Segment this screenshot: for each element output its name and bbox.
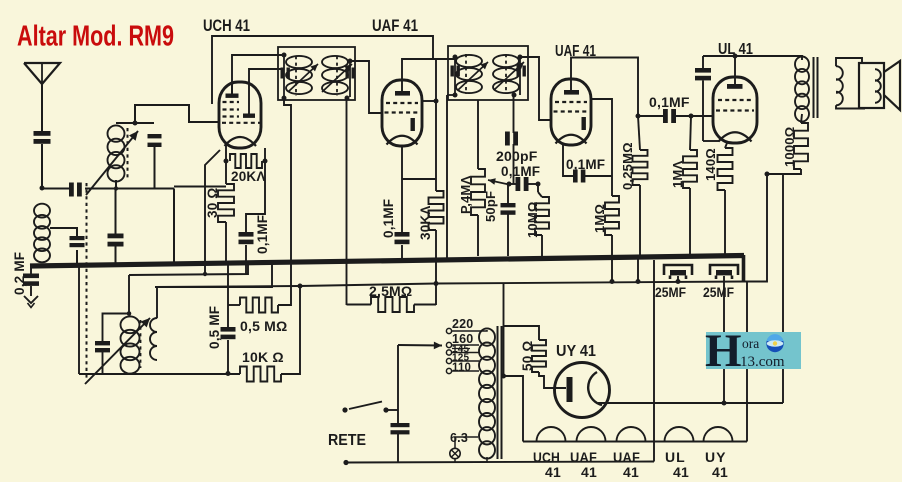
svg-text:200pF: 200pF <box>496 148 538 164</box>
IF1 arrow left <box>288 64 318 92</box>
wire UAF1 diode out <box>422 100 436 102</box>
UAF41-2 diode bar <box>582 117 586 130</box>
node IF2 corners <box>453 55 458 60</box>
node 1M return <box>610 279 615 284</box>
wire 50ohm to UY anode <box>539 372 566 388</box>
wire UAF2 diode out <box>591 99 612 196</box>
antenna coil L1 <box>34 204 50 218</box>
node antenna junction <box>40 186 45 191</box>
wire screen cap to bus <box>245 245 247 274</box>
IF2 arrow right <box>494 62 524 90</box>
resistor 50ohm <box>532 340 546 372</box>
wire RF coil bottom <box>115 180 117 189</box>
arrow osc tuning <box>85 318 150 384</box>
svg-text:41: 41 <box>623 464 639 480</box>
node cathode-20K <box>224 159 229 164</box>
UCH41 cathode arc <box>225 137 257 146</box>
wire AVC top rail <box>212 36 433 104</box>
resistor 1M grid UL41 <box>683 150 697 188</box>
wire RF node up and to UCH41 grid <box>135 105 218 123</box>
RF coil L2 <box>108 125 125 141</box>
svg-text:25MF: 25MF <box>655 284 686 300</box>
svg-text:0,1MF: 0,1MF <box>255 215 270 254</box>
wire 1M grid leads <box>690 116 691 150</box>
wire 220 tap top <box>479 330 487 331</box>
mains switch <box>342 407 347 412</box>
wire UCH41 triode anode to IF1 left <box>249 69 281 114</box>
wire winding bottom to rail <box>480 457 487 462</box>
resistor 30K <box>429 191 444 230</box>
IF2 core dashes right <box>505 54 507 94</box>
svg-text:1MΛ: 1MΛ <box>670 161 685 188</box>
node 20K right <box>263 159 268 164</box>
wire cathode to 30K <box>402 178 436 180</box>
oscillator coil L3 <box>121 316 140 333</box>
wire switch to column <box>386 409 398 411</box>
wire heater end up to bus corner <box>746 282 748 442</box>
watermark Hora13.com <box>705 325 801 377</box>
voltage selector taps <box>446 328 451 333</box>
svg-text:0,1MF: 0,1MF <box>501 164 540 179</box>
svg-text:20KΛ: 20KΛ <box>231 169 266 184</box>
IF1 primary winding <box>286 56 312 68</box>
wire RF trimmer to ant wire <box>154 147 156 189</box>
svg-text:25MF: 25MF <box>703 284 734 300</box>
wire UAF1 anode to IF2 <box>402 59 455 91</box>
node 30K return <box>434 281 439 286</box>
wire IF1 secondary top to UAF1 grid <box>350 61 382 113</box>
capacitor 0.5MF <box>227 262 229 327</box>
wire 6.3 tap <box>455 437 478 448</box>
UCH41 anode bar <box>226 94 239 98</box>
wire to UCH41 cathode node <box>174 186 226 188</box>
wire osc cap branch <box>103 314 130 342</box>
node UL41 anode rail <box>733 54 738 59</box>
UL41 grid dashes <box>718 99 752 101</box>
svg-text:UCH: UCH <box>533 449 560 465</box>
svg-text:UL: UL <box>665 449 686 465</box>
return line B- <box>155 282 744 288</box>
svg-text:UCH 41: UCH 41 <box>203 16 250 35</box>
svg-text:1000Ω: 1000Ω <box>782 127 797 167</box>
node detector <box>507 182 512 187</box>
heater chain bumps <box>537 427 733 442</box>
capacitor 0.1MF UCH screen <box>239 232 254 237</box>
resistor 1M audio <box>605 196 619 235</box>
node 0.5MF bottom <box>226 371 231 376</box>
arrow RF coil tuning <box>86 131 138 195</box>
svg-text:UAF: UAF <box>570 449 597 465</box>
UAF41-2 cathode arc <box>556 135 587 144</box>
wire coupling cap to tuned circuit <box>85 188 174 190</box>
wire mains bottom rail <box>346 462 654 463</box>
wire tap cap to bus <box>76 250 78 264</box>
resistor 0.4M <box>471 169 485 215</box>
node IF1 corners <box>282 53 287 58</box>
svg-text:0,2 MF: 0,2 MF <box>12 252 27 295</box>
wire bus to osc bottom <box>78 267 80 374</box>
svg-text:Altar Mod. RM9: Altar Mod. RM9 <box>17 21 174 53</box>
svg-text:0,1MF: 0,1MF <box>649 94 690 110</box>
wire 1000 top <box>801 114 802 123</box>
capacitor antenna coil tap <box>70 236 85 240</box>
wire primary top <box>800 56 802 60</box>
chassis bus heavy line <box>30 256 744 267</box>
svg-text:41: 41 <box>673 464 689 480</box>
antenna <box>24 63 60 84</box>
IF2 secondary winding <box>493 55 519 67</box>
capacitor mains <box>391 423 410 427</box>
wire UAF2 cathode net <box>563 144 573 176</box>
capacitor 0.2MF <box>30 266 32 274</box>
power transformer winding <box>479 328 495 345</box>
IF2 arrow left <box>458 62 488 90</box>
UAF41-1 diode bar <box>411 118 415 131</box>
arrow AVC takeoff <box>488 180 509 185</box>
IF transformer 1 box <box>278 47 355 100</box>
IF1 core dashes left <box>295 56 297 96</box>
node osc return <box>298 284 303 289</box>
node UL grid node <box>689 114 694 119</box>
IF2 secondary side wire <box>519 57 521 95</box>
UAF41-1 cathode arc <box>387 136 418 145</box>
capacitor 50pF <box>501 203 516 207</box>
svg-text:RETE: RETE <box>328 432 366 449</box>
speaker secondary coil <box>836 66 843 105</box>
UAF41-2 grid dashes <box>555 101 587 103</box>
UCH41 grid dashes <box>223 101 240 103</box>
wire 2.5M leads <box>347 304 372 306</box>
output transformer core <box>813 57 815 118</box>
IF2 secondary cap <box>517 66 520 77</box>
wire antenna to node <box>41 144 43 188</box>
svg-text:UAF 41: UAF 41 <box>372 16 418 35</box>
resistor 0.5M <box>240 298 278 313</box>
wire osc coil2 top to bus line <box>157 262 272 318</box>
capacitor antenna coupling <box>69 183 74 197</box>
IF transformer 2 box <box>448 46 528 100</box>
svg-text:13.com: 13.com <box>740 354 785 370</box>
svg-text:0,5 MΩ: 0,5 MΩ <box>240 318 287 334</box>
wire mains column <box>397 345 399 423</box>
capacitor 0.1MF coupling <box>663 109 668 123</box>
wire 0.25M leads <box>638 116 640 150</box>
power transformer core <box>497 326 499 459</box>
wire speaker bottom link <box>836 105 865 108</box>
wire UAF2 cap to column <box>585 175 612 177</box>
resistor 30ohm cathode <box>218 184 234 222</box>
node UAF1 diode <box>434 99 439 104</box>
IF1 core dashes right <box>336 56 338 96</box>
svg-text:41: 41 <box>581 464 597 480</box>
capacitor RF trimmer <box>148 134 162 138</box>
wire UL41 anode up <box>734 56 736 84</box>
UL41 cathode arc <box>719 132 752 141</box>
wire diode load column <box>435 59 437 191</box>
resistor 10K <box>240 367 281 382</box>
ground symbol <box>30 286 32 296</box>
wire det cap leads <box>509 183 516 185</box>
wire anode rail <box>703 55 800 57</box>
capacitor 0.1MF UAF2 <box>573 170 578 183</box>
pilot lamp <box>450 448 460 458</box>
svg-text:UAF: UAF <box>613 449 640 465</box>
wire 0.5M leads <box>228 304 240 306</box>
wire antenna node to coupling cap <box>42 188 69 190</box>
wire tap to 50ohm <box>504 326 540 340</box>
speaker frame <box>859 63 884 108</box>
UL41 anode bar <box>727 84 743 89</box>
node mains bottom terminal <box>343 460 348 465</box>
tap lines <box>452 330 479 332</box>
capacitor antenna series (top) <box>34 131 51 136</box>
wire 30ohm to bus <box>225 222 227 264</box>
node osc coil1 top <box>127 311 132 316</box>
wire heater mid to mains rail <box>653 442 655 462</box>
svg-text:30KΛ: 30KΛ <box>418 205 433 240</box>
svg-text:50pF: 50pF <box>483 191 498 222</box>
IF2 primary cap <box>451 66 454 77</box>
svg-text:0,1MF: 0,1MF <box>381 199 396 238</box>
svg-text:41: 41 <box>545 464 561 480</box>
IF2 primary side wire <box>454 57 456 95</box>
svg-text:220: 220 <box>452 317 473 331</box>
resistor 1000ohm <box>794 123 808 169</box>
wire UCH41 cathode <box>225 145 227 184</box>
svg-text:2,5MΩ: 2,5MΩ <box>369 283 412 299</box>
resistor 10M <box>535 197 549 235</box>
wire 30K to return line <box>435 230 437 305</box>
capacitor tuning gang 1 (osc) <box>108 234 124 239</box>
svg-text:ora: ora <box>742 336 759 351</box>
wire IF2 primary bottom to bus <box>446 95 448 259</box>
wire IF1 primary bottom to bus <box>284 98 291 262</box>
core dashes osc <box>140 320 142 368</box>
wire IF2 sec bottom to 200pF <box>513 95 515 133</box>
UAF41-1 anode bar <box>395 91 410 96</box>
node det out <box>536 182 541 187</box>
wire osc bottom right <box>281 286 300 374</box>
UAF41-2 anode bar <box>564 90 579 95</box>
svg-text:10MΩ: 10MΩ <box>525 201 540 238</box>
core dashes RF coil <box>127 128 129 178</box>
UAF41-1 grid dashes <box>386 102 418 104</box>
wire cathode cap to bus <box>401 245 403 260</box>
dashed gang link <box>86 183 88 380</box>
wire osc bottom line <box>79 373 240 375</box>
wire bus to heater mid <box>653 260 655 442</box>
resistor 0.25M <box>633 150 648 185</box>
wire UAF2 anode to rail <box>571 58 638 117</box>
wire 140 leads <box>725 143 727 148</box>
tube UAF41-1 envelope <box>382 80 422 146</box>
wire 1M audio to return <box>611 235 613 282</box>
capacitor 0.1MF UAF1 cathode <box>395 232 410 237</box>
wire coupling cap wires <box>640 115 663 117</box>
IF2 primary winding <box>456 55 482 67</box>
IF1 arrow right <box>322 64 352 92</box>
return line right extension <box>744 174 767 282</box>
svg-text:P,4MΛ: P,4MΛ <box>458 176 473 214</box>
svg-text:6.3: 6.3 <box>450 431 468 445</box>
node osc grid-coil top <box>203 272 207 276</box>
wire UAF1 cathode <box>401 146 403 232</box>
svg-text:10K Ω: 10K Ω <box>242 349 284 365</box>
capacitor 25MF second <box>710 265 738 275</box>
UY41 anode bar <box>567 377 573 402</box>
svg-text:41: 41 <box>712 464 728 480</box>
wire 50pF leads <box>507 184 509 203</box>
svg-text:0,25MΩ: 0,25MΩ <box>620 142 635 190</box>
wire IF2 sec top to UAF2 grid <box>520 57 552 120</box>
wire gang cap 1 leads <box>115 189 117 234</box>
wire HT riser <box>782 174 784 403</box>
capacitor UL41 tone <box>695 68 711 73</box>
oscillator coil L4 <box>150 318 157 360</box>
wire speaker top link <box>836 58 862 66</box>
tube UCH41 envelope <box>219 82 261 148</box>
speaker cone <box>884 61 900 110</box>
capacitor 25MF first <box>664 265 692 275</box>
heater chain line <box>523 441 747 443</box>
svg-text:0,1MF: 0,1MF <box>566 157 605 172</box>
wire 1000 bottom <box>767 169 801 174</box>
arrow voltage selector <box>398 344 442 347</box>
IF1 primary cap <box>281 68 284 79</box>
chassis bus corner drop <box>742 255 746 282</box>
capacitor 0.1MF det <box>516 177 521 191</box>
wire lamp to rail <box>454 459 456 463</box>
wire 10M leads <box>537 184 539 192</box>
node 25MF first <box>676 279 681 284</box>
tube UAF41-2 envelope <box>551 79 591 145</box>
svg-text:50 Ω: 50 Ω <box>520 341 535 371</box>
IF2 core dashes left <box>465 54 467 94</box>
output transformer primary <box>795 56 809 71</box>
IF1 secondary winding <box>322 56 348 68</box>
wire B- drop <box>503 283 505 376</box>
wire RF node to tuning cap <box>135 122 154 124</box>
wire 20K right up <box>264 148 266 161</box>
svg-text:1MΩ: 1MΩ <box>592 204 607 233</box>
resistor 140ohm cathode <box>718 148 733 190</box>
node RF coil bottom <box>114 186 118 190</box>
wire antenna coil top tap <box>50 228 77 236</box>
UCH41 triode anode bar <box>243 114 255 118</box>
wire tap to heater chain <box>504 376 524 442</box>
wire osc grid line <box>129 262 248 275</box>
node 0.25M return <box>636 279 641 284</box>
wire UCH41 osc grid <box>205 150 220 274</box>
tube UL41 envelope <box>713 77 757 143</box>
tube UY41 envelope <box>555 363 610 418</box>
svg-text:30 Ω: 30 Ω <box>205 188 220 218</box>
svg-text:UY: UY <box>705 449 726 465</box>
resistor 20K <box>230 154 262 168</box>
node 25MF second <box>722 401 727 406</box>
node heater tap <box>501 374 506 379</box>
capacitor osc padder <box>95 341 110 345</box>
IF1 secondary cap <box>346 68 349 79</box>
wire IF1 secondary bottom down <box>346 98 348 305</box>
IF1 primary side wires <box>283 55 285 97</box>
wire osc padder to bottom <box>102 352 104 374</box>
wire 0.25M crosses to return <box>637 259 639 282</box>
speaker voice coil <box>875 69 881 103</box>
capacitor 200pF <box>505 132 510 146</box>
wire UCH41 anode to IF1 <box>232 55 284 82</box>
wire 0.4M leads <box>477 100 479 169</box>
resistor 2.5M <box>371 297 414 312</box>
wire osc section top <box>128 275 130 313</box>
svg-text:H: H <box>705 325 742 377</box>
svg-text:UY 41: UY 41 <box>556 343 596 360</box>
node coupling <box>636 114 641 119</box>
wire to chassis bus <box>173 189 175 265</box>
UY41 cathode arc <box>588 372 602 405</box>
wire 200pF to det node <box>513 144 515 184</box>
IF1 secondary side wire <box>349 61 351 97</box>
node RF grid <box>133 121 138 126</box>
wire screen node down <box>246 161 265 232</box>
wire RF coil to node <box>116 122 135 124</box>
svg-text:140Ω: 140Ω <box>703 148 718 181</box>
svg-text:110: 110 <box>452 362 471 374</box>
wire UY41 cathode out B+ <box>598 402 783 404</box>
svg-text:0,5 MF: 0,5 MF <box>207 306 222 349</box>
node 1000 return <box>765 172 770 177</box>
